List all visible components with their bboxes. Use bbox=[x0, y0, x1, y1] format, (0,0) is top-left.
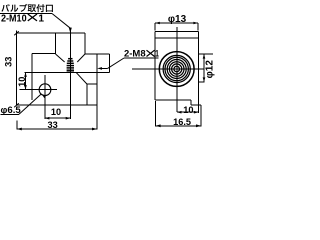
front view top edge bbox=[17, 32, 86, 34]
svg-text:16.5: 16.5 bbox=[173, 117, 191, 127]
svg-text:φ12: φ12 bbox=[205, 60, 216, 79]
M10 port centerline bbox=[69, 28, 71, 119]
svg-text:10: 10 bbox=[51, 107, 61, 117]
dim 10 vertical line bbox=[25, 72, 27, 89]
hole crosshair vertical + dim extension bbox=[44, 75, 46, 119]
svg-text:33: 33 bbox=[3, 57, 13, 67]
dim phi12 extension top bbox=[199, 53, 214, 55]
dim phi12 line bbox=[203, 54, 205, 82]
large times cross of 2-M8×1 bbox=[147, 50, 155, 56]
notch horizontal bbox=[191, 104, 201, 106]
dim 16.5 line bbox=[156, 125, 201, 127]
right extension down to 16.5 dim bbox=[200, 105, 202, 126]
dim 33 bottom line bbox=[17, 128, 97, 130]
svg-text:33: 33 bbox=[47, 120, 57, 130]
side view flange line bbox=[155, 37, 199, 39]
dim 33 bottom extension left bbox=[16, 121, 18, 130]
right step horizontal bbox=[85, 53, 110, 55]
svg-text:10: 10 bbox=[17, 77, 27, 87]
dim 33 tick top bbox=[14, 31, 19, 35]
lower step vertical bbox=[86, 84, 88, 105]
M8 leader diagonal bbox=[108, 58, 124, 68]
M8 leader horizontal bbox=[100, 67, 108, 69]
side view right edge bbox=[198, 31, 200, 100]
inner vertical edge bbox=[31, 54, 33, 101]
port chamfer left diagonal bbox=[56, 54, 65, 62]
svg-text:2-M8: 2-M8 bbox=[124, 48, 146, 59]
svg-text:φ13: φ13 bbox=[168, 14, 187, 25]
side view vertical centerline bbox=[176, 27, 178, 112]
hole crosshair horizontal bbox=[20, 89, 57, 91]
svg-text:1: 1 bbox=[155, 48, 159, 59]
phi6.5 leader underline bbox=[1, 113, 20, 115]
dim phi13 line bbox=[155, 22, 198, 24]
dim phi12 extension bottom bbox=[199, 81, 205, 83]
dim 10 side line bbox=[177, 111, 199, 113]
threaded boss concentric circles bbox=[159, 52, 194, 87]
port recess left wall bbox=[55, 33, 57, 54]
side view horizontal centerline bbox=[132, 68, 204, 70]
mounting hole phi6.5 bbox=[39, 84, 51, 96]
recess shoulder horizontal bbox=[32, 53, 56, 55]
dim 33 tick bottom bbox=[14, 103, 19, 107]
dim 16.5 extension left bbox=[155, 101, 157, 127]
svg-text:2-M10: 2-M10 bbox=[1, 14, 27, 25]
large times cross of 2-M10×1 bbox=[28, 14, 37, 21]
front view bottom edge bbox=[17, 104, 98, 106]
port chamfer right diagonal bbox=[77, 54, 85, 62]
leader arrow bbox=[69, 28, 72, 33]
svg-text:10: 10 bbox=[183, 105, 193, 115]
front view left edge / 33 dim bbox=[16, 31, 18, 106]
leader diagonal to M10 port bbox=[52, 14, 70, 29]
lower right chamfer diagonal bbox=[76, 72, 87, 84]
M8 label underline bbox=[124, 57, 159, 59]
dim 10 side extension right bbox=[198, 100, 200, 113]
M10 thread symbol bbox=[67, 59, 74, 72]
notch vertical bbox=[190, 100, 192, 105]
side view top edge bbox=[155, 30, 199, 32]
dim 10 bottom line bbox=[45, 117, 71, 119]
label バルブ取付口 (valve mounting port) bbox=[1, 4, 52, 12]
phi6.5 leader diagonal bbox=[19, 94, 42, 115]
dim phi13 extension left bbox=[154, 23, 156, 31]
lower step horizontal bbox=[87, 83, 97, 85]
front view right edge + bottom dim extension bbox=[96, 54, 98, 130]
plate top edge bbox=[25, 71, 110, 73]
leader underline bbox=[0, 13, 52, 15]
side view bottom edge bbox=[155, 99, 191, 101]
right upper vertical bbox=[84, 33, 86, 54]
svg-text:1: 1 bbox=[38, 14, 44, 25]
side view left edge bbox=[154, 31, 156, 100]
dim phi13 extension right bbox=[197, 23, 199, 31]
M8 boss right vertical bbox=[109, 54, 111, 72]
